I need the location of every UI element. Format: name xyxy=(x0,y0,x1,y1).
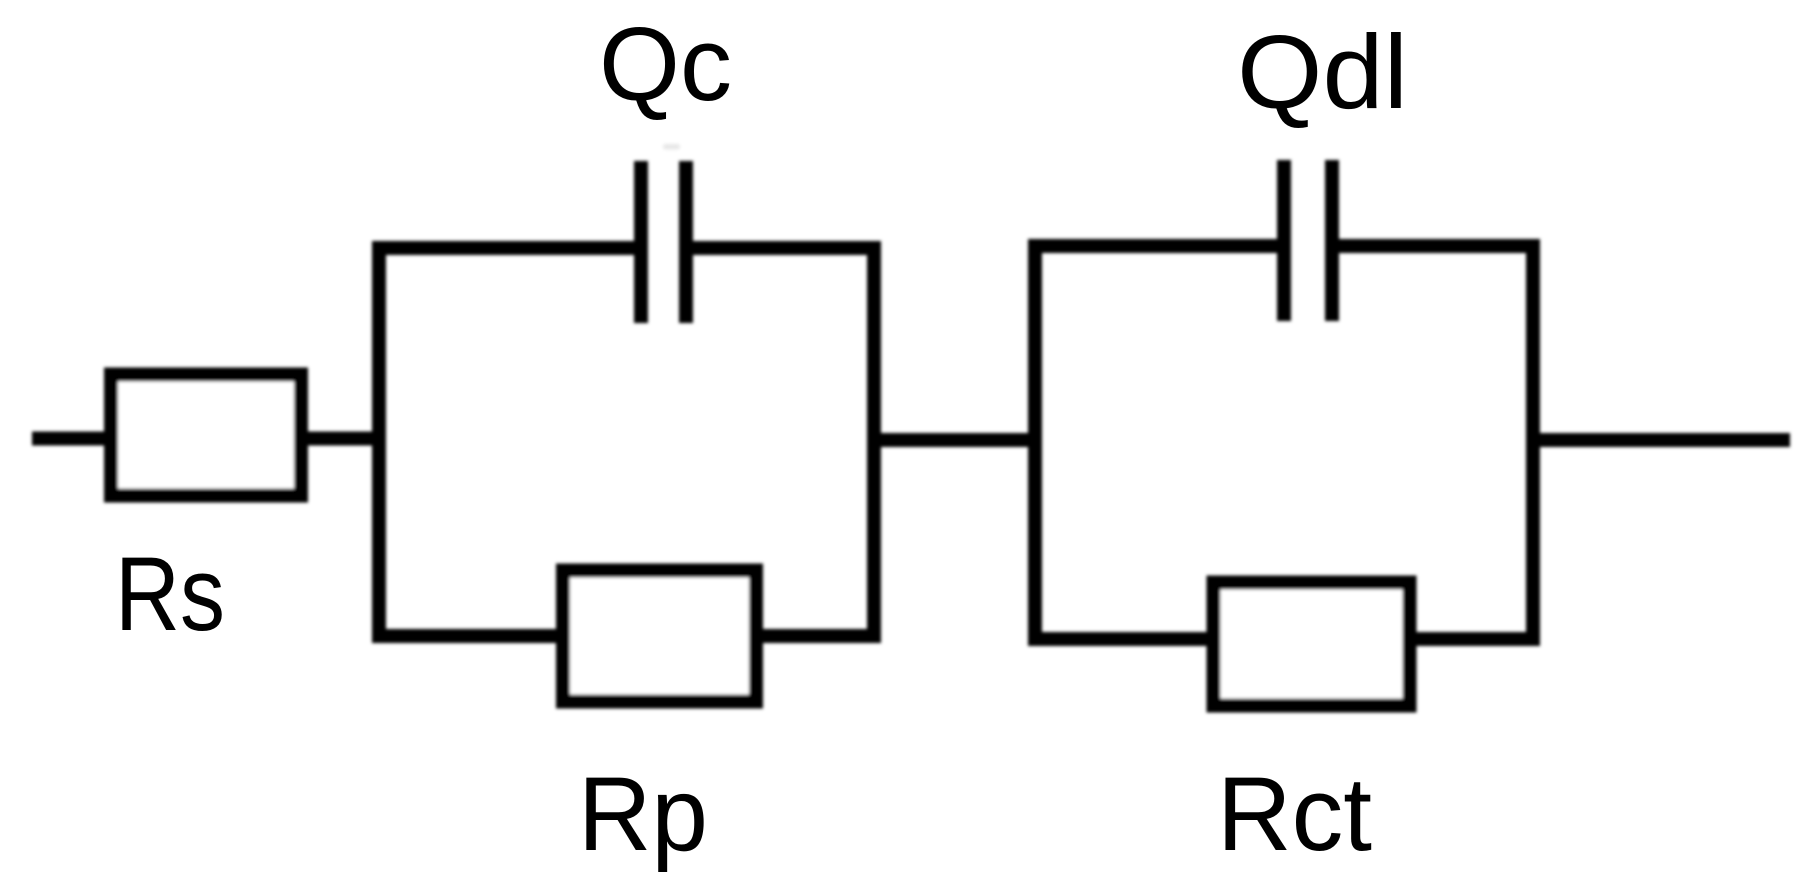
svg-text:Rct: Rct xyxy=(1217,756,1372,873)
wire (bottom-left + left rail + top-left of second block) xyxy=(1035,246,1288,639)
artifact mark above Qc xyxy=(663,144,680,150)
resistor Rs xyxy=(111,375,301,496)
node A (left rail of first parallel block) xyxy=(379,248,645,636)
wire (top-right + right rail + bottom-right of second block) xyxy=(1328,246,1533,639)
wire node B (between the two parallel blocks) xyxy=(868,433,1041,447)
wire (top-right + right rail + bottom-right of first block) xyxy=(682,248,874,636)
wire Rs to node A xyxy=(301,432,385,446)
svg-text:Qc: Qc xyxy=(599,6,732,123)
resistor Rp xyxy=(563,571,756,702)
capacitor Qdl xyxy=(1284,160,1332,321)
wire right lead xyxy=(1527,433,1790,447)
wire left lead xyxy=(32,432,110,446)
svg-text:Qdl: Qdl xyxy=(1237,14,1408,131)
resistor Rct xyxy=(1214,583,1410,706)
svg-text:Rp: Rp xyxy=(578,756,708,873)
svg-text:Rs: Rs xyxy=(115,536,225,653)
capacitor Qc xyxy=(641,161,686,323)
